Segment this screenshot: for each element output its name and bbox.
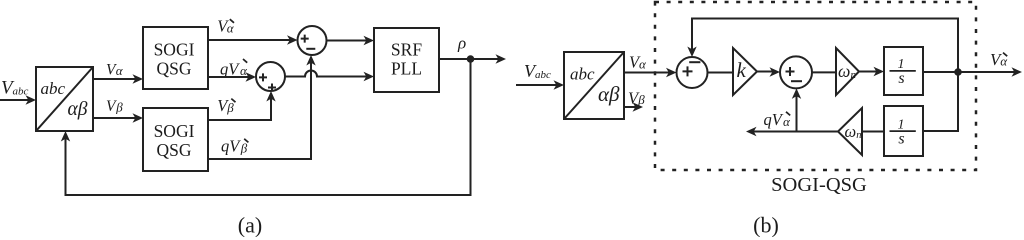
summing junction S2 (a) <box>256 62 285 91</box>
minus sign in S1 (a) <box>306 48 315 50</box>
svg-text:β: β <box>240 141 248 156</box>
label SOGI QSG 1 text <box>154 39 195 78</box>
svg-text:ω: ω <box>838 61 850 81</box>
arrowhead into abc block (a) <box>26 95 37 104</box>
arrowhead into SOGI2 (a) <box>133 113 144 122</box>
label Vhat-beta (a) <box>217 96 234 115</box>
svg-text:k: k <box>737 58 747 82</box>
svg-text:PLL: PLL <box>391 58 422 78</box>
svg-text:n: n <box>856 130 861 141</box>
gain triangle omega-n lower pointing left (b) <box>838 108 862 155</box>
block integrator 1/s lower (b) <box>884 106 923 156</box>
accent grave over beta of qVhat-beta (a) <box>244 139 248 143</box>
svg-text:αβ: αβ <box>598 82 620 106</box>
svg-text:α: α <box>783 114 791 129</box>
wire Vhat-alpha to sum1 (a) <box>208 39 291 41</box>
plus sign left in B2 (b) <box>786 67 795 76</box>
label qVhat-alpha (a) <box>220 60 248 79</box>
fraction bar 1/s upper (b) <box>890 70 916 72</box>
wire integrator 1 to output (b) <box>923 71 1016 73</box>
arrowhead into sum B1 left (b) <box>666 68 677 77</box>
label omega-n upper (b) <box>838 61 857 81</box>
wire B1 to k gain (b) <box>708 72 734 74</box>
label Vabc input (b) <box>524 61 551 81</box>
arrowhead into SRF PLL upper (a) <box>364 36 375 45</box>
arrowhead qVhat-alpha (b) <box>746 127 757 136</box>
arrowhead into sum1 bottom (a) <box>306 55 315 66</box>
svg-text:abc: abc <box>535 69 551 81</box>
svg-text:abc: abc <box>570 64 595 83</box>
accent grave over alpha of qVhat-alpha (a) <box>243 59 247 63</box>
gain triangle omega-n upper (b) <box>836 48 859 95</box>
label Valpha (a) <box>106 61 124 78</box>
svg-text:s: s <box>898 130 904 147</box>
label SRF PLL text <box>391 39 422 78</box>
arrowhead into sum1 left (a) <box>287 35 298 44</box>
arrowhead feedback into sum B1 top (b) <box>687 47 696 58</box>
minus sign bottom in B2 (b) <box>791 80 802 82</box>
block integrator 1/s upper (b) <box>884 47 923 95</box>
plus sign left in S2 (a) <box>259 73 267 81</box>
wire qVhat-alpha output left (b) <box>752 131 838 133</box>
wire Vabc input (b) <box>516 84 558 86</box>
svg-text:qV: qV <box>220 60 240 79</box>
label SOGI QSG 2 text <box>154 121 195 160</box>
block abc-to-alphabeta U1 (a) <box>36 67 93 131</box>
wire feedback down and left (a) <box>66 59 471 195</box>
svg-text:SOGI-QSG: SOGI-QSG <box>771 174 867 196</box>
arrowhead into sum B2 left (b) <box>770 67 781 76</box>
svg-text:(b): (b) <box>753 212 779 237</box>
svg-text:α: α <box>240 63 248 78</box>
accent grave over alpha of Vhat-alpha (a) <box>230 19 234 23</box>
wire Vabc input (a) <box>0 99 30 101</box>
wire qVhat-beta up into sum1 (a) <box>208 61 311 159</box>
arrowhead Vbeta stub (b) <box>633 102 644 111</box>
label qVhat-beta (a) <box>221 137 248 156</box>
arrowhead output Vhat-alpha (b) <box>1012 67 1023 76</box>
svg-text:s: s <box>898 70 904 87</box>
svg-text:qV: qV <box>221 137 241 156</box>
svg-text:SRF: SRF <box>391 39 422 59</box>
wire Valpha into sum B1 (b) <box>624 72 670 74</box>
block SRF PLL (a) <box>374 28 439 92</box>
wire B2 to omega triangle (b) <box>812 71 836 73</box>
svg-text:ω: ω <box>845 122 857 141</box>
svg-text:αβ: αβ <box>68 99 88 120</box>
arrowhead into SOGI1 (a) <box>133 74 144 83</box>
accent grave over beta of Vhat-beta (a) <box>231 99 235 103</box>
plus sign bottom in S2 (a) <box>268 84 276 92</box>
label Vbeta (b) <box>628 88 645 107</box>
svg-text:QSG: QSG <box>156 58 191 78</box>
summing junction B1 (b) <box>677 57 708 88</box>
diagonal of abc block (a) <box>36 67 93 131</box>
svg-text:α: α <box>639 56 647 71</box>
label Valpha (b) <box>629 53 647 72</box>
wire Vhat-beta up into sum2 (a) <box>208 97 271 120</box>
dashed boundary box SOGI-QSG (b) <box>655 2 976 170</box>
block SOGI QSG 2 (a) <box>143 108 208 171</box>
plus sign left in B1 (b) <box>683 66 693 76</box>
label Vabc input (a) <box>1 78 29 99</box>
svg-text:(a): (a) <box>238 212 262 237</box>
summing junction B2 (b) <box>780 56 812 88</box>
arrowhead into integrator 1 (b) <box>874 67 885 76</box>
arrowhead output rho (a) <box>496 54 507 63</box>
label omega-n lower (b) <box>845 122 862 141</box>
wire Vbeta (a) <box>93 117 137 119</box>
fraction bar 1/s lower (b) <box>890 130 916 132</box>
arrowhead into abc block (b) <box>554 80 565 89</box>
gain triangle k (b) <box>733 48 757 95</box>
label 1/s lower (b) <box>898 117 905 147</box>
accent grave over alpha of output Vhat-alpha (b) <box>1003 53 1007 57</box>
label qVhat-alpha (b) <box>764 110 792 129</box>
node junction output (b) <box>954 68 962 76</box>
arrowhead into sum2 bottom (a) <box>266 91 275 102</box>
wire node down to integrator 2 (b) <box>923 72 958 131</box>
node junction on rho line (a) <box>467 55 475 63</box>
arrowhead into sum B2 bottom (b) <box>792 88 801 99</box>
svg-text:β: β <box>637 92 645 107</box>
block SOGI QSG 1 (a) <box>143 27 208 89</box>
accent grave over alpha of qVhat-alpha (b) <box>786 112 790 116</box>
wire integrator 2 to omega triangle lower (b) <box>862 131 884 133</box>
wire k to sum B2 (b) <box>757 71 774 73</box>
wire sum1 output to SRF PLL (a) <box>327 40 369 42</box>
label 1/s upper (b) <box>898 57 905 87</box>
svg-text:abc: abc <box>41 79 66 98</box>
svg-text:ρ: ρ <box>457 34 466 53</box>
svg-text:qV: qV <box>764 110 784 129</box>
svg-text:QSG: QSG <box>156 140 191 160</box>
label Vhat-alpha output (b) <box>990 50 1008 69</box>
wire sum2 output to SRF PLL with hop (a) <box>285 71 368 77</box>
svg-text:SOGI: SOGI <box>154 121 195 141</box>
wire SRF PLL output rho (a) <box>439 58 500 60</box>
svg-text:β: β <box>115 100 123 115</box>
wire omega to integrator 1 (b) <box>859 71 878 73</box>
wire Valpha (a) <box>93 78 137 80</box>
arrowhead into SRF PLL lower (a) <box>364 72 375 81</box>
arrowhead feedback into abc block bottom (a) <box>61 131 70 142</box>
summing junction S1 (a) <box>298 26 327 55</box>
wire qVhat-alpha branch up into sum B2 (b) <box>796 95 798 132</box>
plus sign in S1 (a) <box>301 35 309 43</box>
label Vhat-alpha (a) <box>217 17 235 36</box>
block abc-to-alphabeta U2 (b) <box>564 52 624 119</box>
svg-text:β: β <box>226 100 234 115</box>
wire feedback top loop (b) <box>692 19 958 73</box>
wire qVhat-alpha to sum2 (a) <box>208 76 250 78</box>
minus sign top in B1 (b) <box>689 61 700 63</box>
svg-text:n: n <box>851 69 857 81</box>
svg-text:α: α <box>116 63 124 78</box>
label Vbeta (a) <box>106 98 123 115</box>
svg-text:SOGI: SOGI <box>154 39 195 59</box>
diagonal of abc block (b) <box>564 52 624 119</box>
arrowhead into sum2 left (a) <box>246 72 257 81</box>
wire Vbeta stub (b) <box>624 106 637 108</box>
